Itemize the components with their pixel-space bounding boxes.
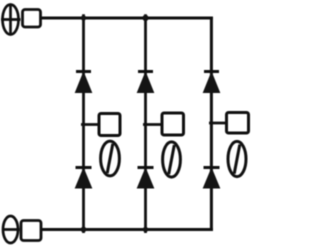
battery negative terminal symbol (circle with bar): [2, 216, 20, 243]
branch 1 vertical wire: [82, 14, 85, 233]
positive terminal connector box: [23, 10, 41, 28]
stub wire branch 1 to load box: [81, 123, 99, 126]
lamp symbol branch 1 (ellipse with slash): [101, 141, 120, 176]
negative terminal connector box: [21, 221, 41, 241]
diode D6 (branch 3 bottom, pointing up): [203, 168, 219, 189]
lamp symbol branch 3 (ellipse with slash): [228, 141, 246, 176]
bottom return wire: [42, 228, 213, 231]
diode D2 (branch 2 top, pointing up): [137, 72, 153, 93]
branch 3 vertical wire (right side of loop): [210, 17, 213, 231]
diode D1 (branch 1 top, pointing up): [75, 72, 91, 93]
junction node: branch 1 / top wire: [81, 15, 86, 20]
lamp symbol branch 2 (ellipse with slash): [163, 142, 181, 177]
diode D5 (branch 2 bottom, pointing up): [137, 168, 153, 189]
stub wire branch 3 to load box: [209, 122, 227, 125]
junction node: branch 1 / bottom wire: [81, 227, 87, 233]
top supply wire: [41, 17, 213, 20]
branch 2 vertical wire: [144, 14, 147, 233]
diode D4 (branch 1 bottom, pointing up): [75, 168, 91, 189]
load box branch 3: [227, 113, 249, 134]
diode D3 (branch 3 top, pointing up): [203, 72, 219, 93]
load box branch 2: [162, 113, 184, 135]
stub wire branch 2 to load box: [143, 123, 162, 126]
battery positive terminal symbol (circle with cross): [1, 5, 21, 35]
junction node: branch 2 / bottom wire: [143, 227, 148, 232]
load box branch 1: [99, 114, 120, 136]
junction node: branch 2 / top wire: [142, 15, 148, 21]
